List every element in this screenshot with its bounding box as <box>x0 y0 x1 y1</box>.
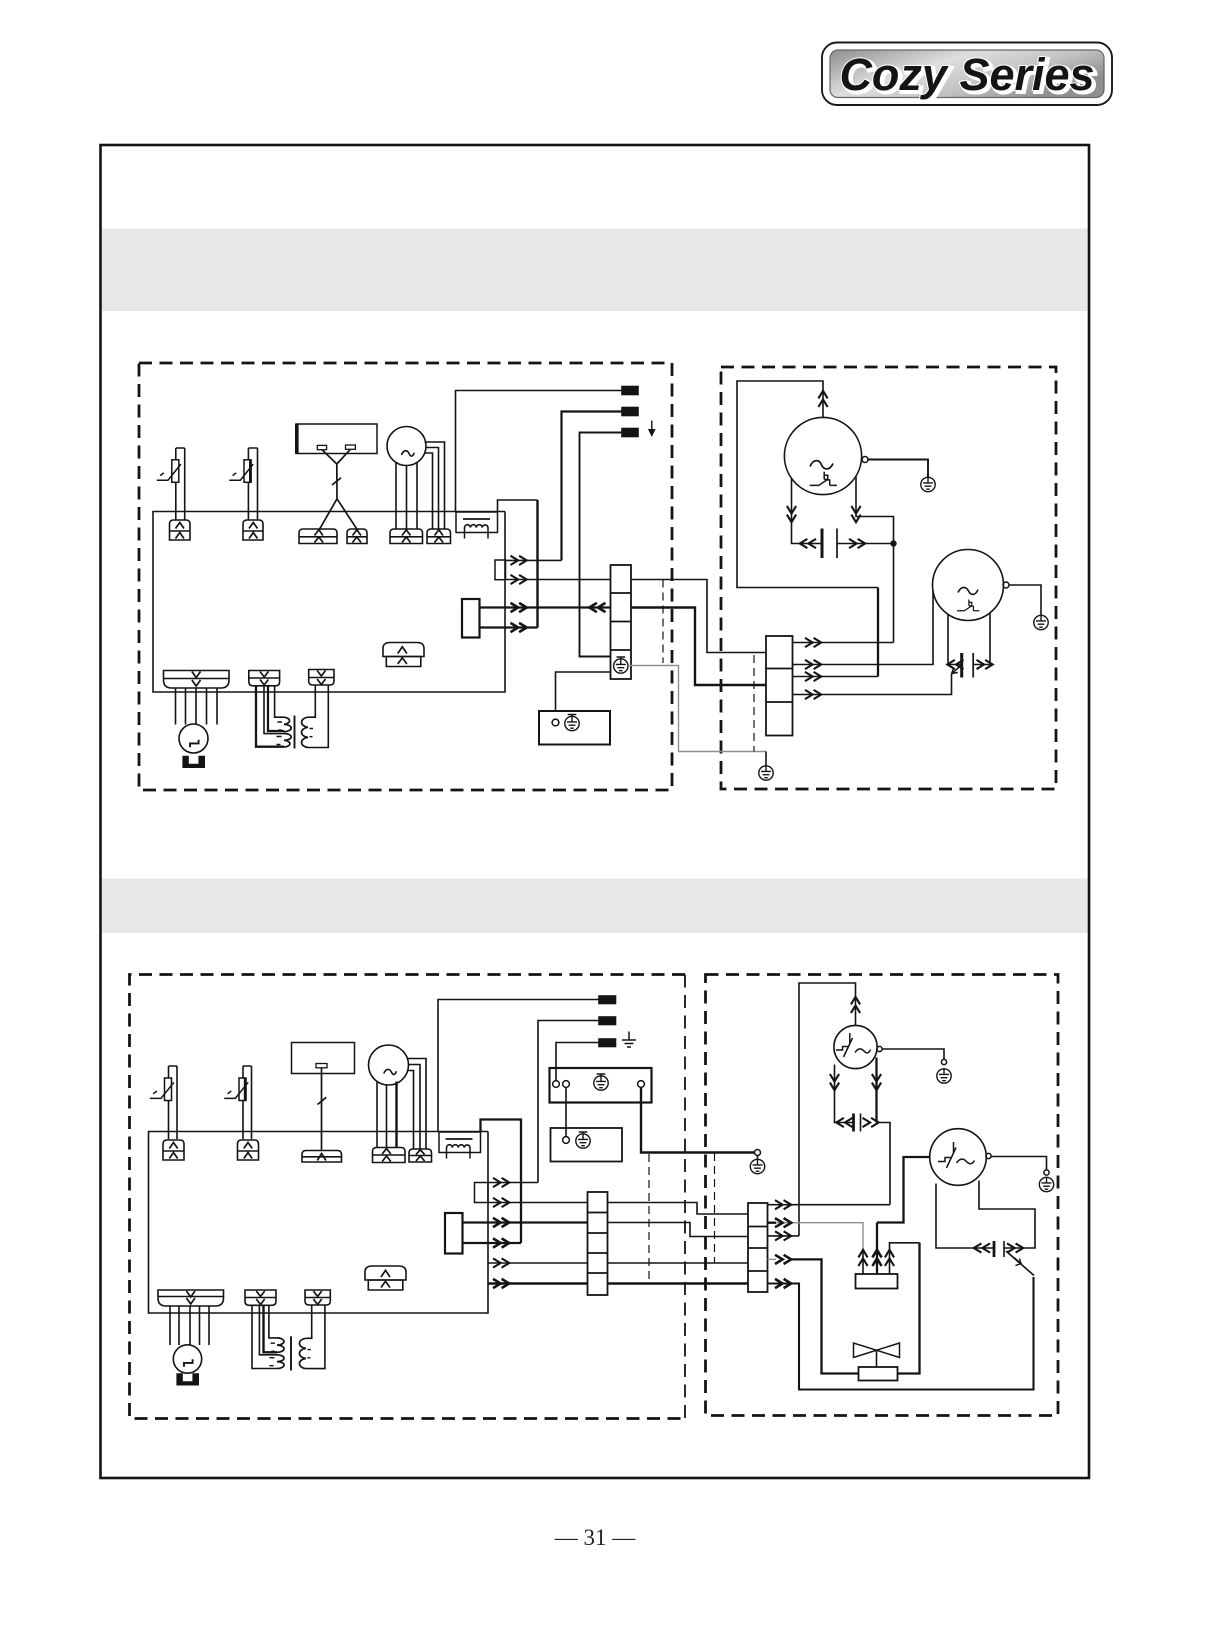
louver stepping motor M <box>179 724 208 753</box>
power relay box <box>445 1213 463 1254</box>
wire: fan2 left to valve lead2 (thick) <box>877 1157 930 1223</box>
svg-text:— 31 —: — 31 — <box>554 1525 637 1550</box>
wire: fan2 earth <box>991 1157 1047 1171</box>
compressor run capacitor <box>821 529 824 559</box>
plate2 earth symbol <box>576 1132 590 1148</box>
chevrons row6 <box>493 1279 509 1288</box>
chevrons row3 out <box>511 603 527 612</box>
fan2 thermal protector <box>957 600 979 611</box>
outdoor frame earth <box>759 766 773 780</box>
faston tab T2 <box>622 408 638 416</box>
wire: filter loop (thick) <box>481 1120 522 1244</box>
wire: strip row1 <box>768 1204 891 1206</box>
louver motor connector <box>164 671 230 689</box>
louver stepping motor M <box>173 1345 201 1373</box>
Cozy Series logo <box>822 43 1112 106</box>
fan2 terminal pin <box>986 1153 991 1158</box>
earth connection plate box <box>539 711 610 745</box>
chevrons lead1 <box>858 1250 867 1266</box>
transformer core <box>294 716 296 749</box>
fan motor sensor wires right <box>407 1059 426 1150</box>
plate terminal circle <box>552 719 559 726</box>
wire break slash <box>332 478 341 485</box>
indoor terminal strip <box>588 1192 608 1295</box>
earth link wire (gray) <box>628 666 766 752</box>
outdoor unit dashed enclosure <box>721 367 1056 789</box>
wire: row4 to valve loop (thick) <box>792 1259 859 1373</box>
fan motor sine mark <box>402 451 415 456</box>
faston tab T2 <box>599 1017 616 1025</box>
connector CN1 (room sensor) <box>170 520 191 540</box>
chevrons fan cap right <box>977 660 993 669</box>
wire: compressor earth <box>868 460 928 478</box>
fan2 sine mark <box>958 587 978 594</box>
wire: strip row2 stub (thick) <box>768 1221 777 1223</box>
interconnect wire A <box>608 1203 749 1215</box>
button SW <box>316 1064 327 1068</box>
wire: strip row2 (gray) to valve lead1 <box>768 1223 864 1250</box>
interconnect wire C <box>608 1262 749 1264</box>
compressor motor CM <box>834 1025 877 1068</box>
wire: compressor top loop <box>737 381 878 588</box>
controller harness wire <box>321 1068 323 1151</box>
chevrons row2 <box>511 575 527 584</box>
chevrons cap right <box>849 539 865 548</box>
wire: comp run lead left <box>835 1065 854 1123</box>
chevrons comp top <box>818 391 827 407</box>
fan motor lead wires down <box>377 1082 387 1148</box>
interconnect wire A <box>631 580 766 653</box>
transformer primary wires <box>252 1305 277 1368</box>
chevrons row3 <box>493 1218 509 1227</box>
wire: comp lead right (thick) <box>875 1058 877 1123</box>
chevrons strip row4 <box>805 690 821 699</box>
valve lead 1 <box>862 1250 864 1274</box>
wire: fan2 aux right <box>974 613 991 665</box>
motor mount bracket <box>182 756 205 768</box>
connector CN2 (pipe sensor) <box>243 520 263 540</box>
spare connector on PCB <box>365 1266 406 1290</box>
display/controller board <box>292 1043 355 1074</box>
wire: tab2 riser <box>538 1021 599 1183</box>
chevrons strip row2 <box>775 1218 791 1227</box>
louver motor connector <box>158 1290 224 1306</box>
wire: comp run lead left <box>792 479 823 544</box>
wire: to outdoor earth <box>757 1156 759 1160</box>
plate2 terminal circle <box>563 1137 570 1144</box>
wire: comp start lead right <box>856 477 894 544</box>
chevrons cap right <box>863 1118 879 1127</box>
arrow mark at tab3 <box>648 421 656 438</box>
chevrons cap left <box>836 1118 852 1127</box>
compressor earth symbol <box>937 1069 951 1083</box>
compressor sine mark <box>855 1049 871 1053</box>
chevrons fan cap right <box>1007 1243 1023 1252</box>
4-way valve body <box>854 1343 900 1358</box>
field wiring dash mark 1 <box>648 1154 650 1284</box>
faston tab T3 <box>622 429 638 437</box>
indoor unit dashed enclosure (heat pump) <box>130 975 686 1419</box>
chevrons row1 <box>511 556 527 565</box>
wire: fan2 aux right <box>979 1181 1035 1249</box>
wire: plate1 to plate2 <box>565 1088 567 1137</box>
fan run capacitor <box>993 1241 996 1257</box>
compressor thermal protector <box>810 472 837 486</box>
chevrons comp right <box>872 1074 881 1090</box>
chevrons row5 <box>493 1258 509 1267</box>
connector CN2 <box>238 1140 259 1160</box>
power relay box <box>462 599 480 638</box>
plate1 earth symbol <box>594 1074 608 1090</box>
wire: strip row4 to fan cap <box>793 674 952 695</box>
wire: strip to plate box <box>556 672 611 711</box>
compressor earth pin <box>862 457 868 463</box>
transformer core <box>290 1336 292 1370</box>
chevrons strip row2 <box>805 660 821 669</box>
wire: fan2 aux left <box>936 1184 994 1249</box>
line filter choke box <box>439 1132 481 1159</box>
transformer TR primary winding <box>284 717 291 747</box>
interconnect wire B <box>608 1223 749 1237</box>
chevrons lead3 <box>885 1250 894 1266</box>
wire: compressor top loop <box>799 983 856 1236</box>
chevrons strip row3 <box>775 1231 791 1240</box>
wire: relay to filter riser (thick) <box>463 1242 522 1244</box>
outdoor unit dashed enclosure (heat pump) <box>706 975 1059 1416</box>
wire: row6 to terminal 5 (thick) <box>488 1282 588 1285</box>
valve connector box <box>856 1274 898 1289</box>
wire: relay to terminal 2 (thick) <box>480 606 611 608</box>
connector CN1 <box>163 1140 184 1160</box>
wire: row1 to tab2 riser <box>488 1182 538 1184</box>
chevrons row3 in <box>589 603 605 612</box>
faston tab T3 <box>599 1039 616 1047</box>
chevrons comp right <box>851 506 860 522</box>
interconnect wire D (thick) <box>608 1282 749 1285</box>
wire: relay to riser (thick) <box>480 626 538 628</box>
chevrons cap left <box>800 539 816 548</box>
thermistor RT1 <box>150 1066 177 1139</box>
chevrons fan cap left <box>947 660 963 669</box>
outdoor chassis earth <box>750 1159 764 1173</box>
wire: row to terminal 1 <box>506 579 611 581</box>
chevrons comp left <box>787 506 796 522</box>
wire: row2 to terminal 1 <box>488 1202 588 1204</box>
wire: riser to tab 2 <box>562 412 623 561</box>
transformer secondary winding <box>302 717 308 747</box>
field wiring dash mark 2 <box>714 1153 716 1263</box>
crossed harness to connectors <box>319 499 358 531</box>
outdoor terminal strip <box>748 1203 768 1292</box>
line filter choke box <box>456 512 498 539</box>
plate1 terminal circle a <box>553 1081 560 1088</box>
outdoor fan motor FM2 <box>933 550 1004 621</box>
interconnect wire B (thick) <box>631 608 766 686</box>
chevrons strip row4 <box>775 1255 791 1264</box>
chevrons strip row5 <box>775 1279 791 1288</box>
wire: PCB to tab 1 <box>456 391 623 513</box>
wire: strip row3 to comp drop <box>793 676 879 678</box>
connector CN5 (fan power) <box>390 529 423 544</box>
chevrons row2 <box>493 1198 509 1207</box>
louver motor lead wires <box>176 688 218 725</box>
compressor earth symbol <box>921 477 935 491</box>
plate1 terminal circle c <box>638 1081 645 1088</box>
chevrons row4 <box>493 1238 509 1247</box>
louver motor lead wires <box>170 1306 209 1345</box>
wire: junction down to strip row1 <box>793 544 894 643</box>
comp earth pin circle <box>941 1059 946 1064</box>
transformer secondary wires <box>308 685 328 748</box>
outer page frame <box>101 145 1090 1478</box>
valve lead 2 (thick) <box>876 1223 878 1275</box>
wire: relay to terminal 2 (thick) <box>463 1221 588 1223</box>
chassis ground mark at tab3 <box>622 1032 636 1048</box>
wire: comp loop drop (thick) <box>877 588 879 677</box>
display/controller board <box>296 424 377 454</box>
overload switch diagonal <box>1006 1251 1034 1276</box>
transformer secondary connector <box>305 1290 330 1305</box>
fan2 earth pin <box>1003 582 1009 588</box>
wire: strip row3 <box>768 1235 800 1237</box>
chevrons lead2 <box>872 1250 881 1266</box>
plate earth symbol <box>565 715 579 731</box>
transformer TR primary winding <box>277 1338 284 1369</box>
transformer secondary connector <box>309 670 334 686</box>
chevrons strip row1 <box>805 638 821 647</box>
fan motor sensor wires right <box>425 442 445 529</box>
valve lead 3 <box>890 1243 920 1274</box>
wire break slash <box>318 1097 327 1104</box>
connector CN6 (fan feedback) <box>427 529 451 544</box>
wire: tab3 drop to earth cell <box>580 433 623 657</box>
wire: filter loop to relay feed <box>498 500 538 512</box>
compressor motor CM <box>784 417 861 494</box>
indoor terminal strip <box>611 565 632 679</box>
button SW1 <box>317 445 326 449</box>
fan motor sine mark <box>384 1069 397 1074</box>
wire: fan2 aux left <box>948 615 962 665</box>
terminal plate box 1 <box>550 1068 652 1103</box>
wire: row5 to terminal 4 <box>488 1262 588 1264</box>
fan run capacitor <box>960 653 963 678</box>
thermistor RT2 <box>224 1066 251 1139</box>
compressor thermal protector <box>836 1033 853 1057</box>
connector block on PCB edge <box>495 560 506 580</box>
fan motor lead wires down <box>396 462 417 529</box>
valve solenoid coil <box>859 1367 898 1381</box>
outdoor terminal strip <box>766 636 793 736</box>
transformer primary connector <box>249 671 280 686</box>
faston tab T1 <box>599 996 616 1004</box>
connector CN4 <box>347 529 367 544</box>
compressor run capacitor <box>852 1114 855 1132</box>
wire: fan2 earth <box>1009 585 1041 615</box>
chevrons row1 <box>493 1178 509 1187</box>
indoor fan motor FM <box>387 427 426 466</box>
wire: strip row2 to fan main <box>793 591 934 665</box>
field wiring dash mark 2 <box>753 655 755 752</box>
connector CN5 <box>409 1149 432 1162</box>
chevrons strip row1 <box>775 1200 791 1209</box>
terminal plate box 2 <box>551 1128 623 1162</box>
wire: cap to strip row1 drop <box>877 1123 891 1205</box>
thermistor RT2 <box>229 448 257 520</box>
wire: compressor earth <box>882 1049 944 1060</box>
fan2 earth symbol <box>1034 615 1048 629</box>
indoor control PCB outline <box>153 512 505 693</box>
gray section band 1 <box>102 229 1088 312</box>
indoor unit dashed enclosure <box>139 363 672 790</box>
earth wire end circle <box>755 1150 761 1156</box>
connector CN4 <box>373 1148 406 1163</box>
connector CN3 <box>299 529 337 544</box>
connector arrow to cap <box>952 665 962 673</box>
thermistor RT1 <box>157 448 185 520</box>
compressor sine mark <box>810 461 833 469</box>
plate1 terminal circle b <box>563 1081 570 1088</box>
compressor terminal pin <box>877 1046 882 1051</box>
wire: strip row5 (thick) <box>768 1277 1034 1390</box>
fan2 sine mark <box>957 1159 975 1164</box>
button SW2 <box>346 445 356 449</box>
wire: earth interconnect (thick) <box>641 1088 755 1153</box>
connector block on PCB edge <box>475 1183 489 1203</box>
indoor control PCB outline <box>149 1132 489 1314</box>
spare connector on PCB <box>383 643 424 667</box>
wire: strip row4 (gray stub) <box>768 1258 777 1260</box>
outdoor fan motor FM2 <box>930 1129 987 1186</box>
field wiring dash mark 1 <box>662 580 664 664</box>
wire: tab3 link <box>556 1043 599 1081</box>
motor mount bracket <box>176 1373 199 1385</box>
chevrons comp left <box>830 1074 839 1090</box>
wire: row to tab riser <box>506 559 562 561</box>
fan2 earth symbol <box>1039 1177 1053 1191</box>
earth symbol in terminal strip <box>614 657 628 673</box>
chevrons strip row3 <box>805 672 821 681</box>
transformer primary connector <box>245 1290 276 1305</box>
chevrons comp top <box>851 997 860 1013</box>
gray section band 2 <box>102 879 1088 934</box>
fan2 thermal protector <box>938 1142 956 1168</box>
indoor fan motor FM <box>369 1045 409 1085</box>
valve stem <box>876 1350 878 1367</box>
transformer secondary wires <box>306 1305 325 1369</box>
earth drop to ground <box>765 752 767 766</box>
fan2 earth pin circle <box>1044 1170 1049 1175</box>
chevrons fan cap left <box>974 1243 990 1252</box>
transformer secondary winding <box>299 1338 305 1368</box>
connector CN3 <box>302 1151 342 1163</box>
controller harness wires <box>322 449 350 499</box>
chevrons row4 <box>511 623 527 632</box>
transformer primary wires <box>256 686 284 747</box>
wire: tab1 riser <box>438 1000 599 1132</box>
wire: cap right to junction <box>837 543 894 545</box>
junction node <box>890 540 896 546</box>
wire: thick relay riser <box>536 500 538 628</box>
faston tab T1 <box>622 387 638 395</box>
svg-text:Cozy Series: Cozy Series <box>839 49 1094 100</box>
